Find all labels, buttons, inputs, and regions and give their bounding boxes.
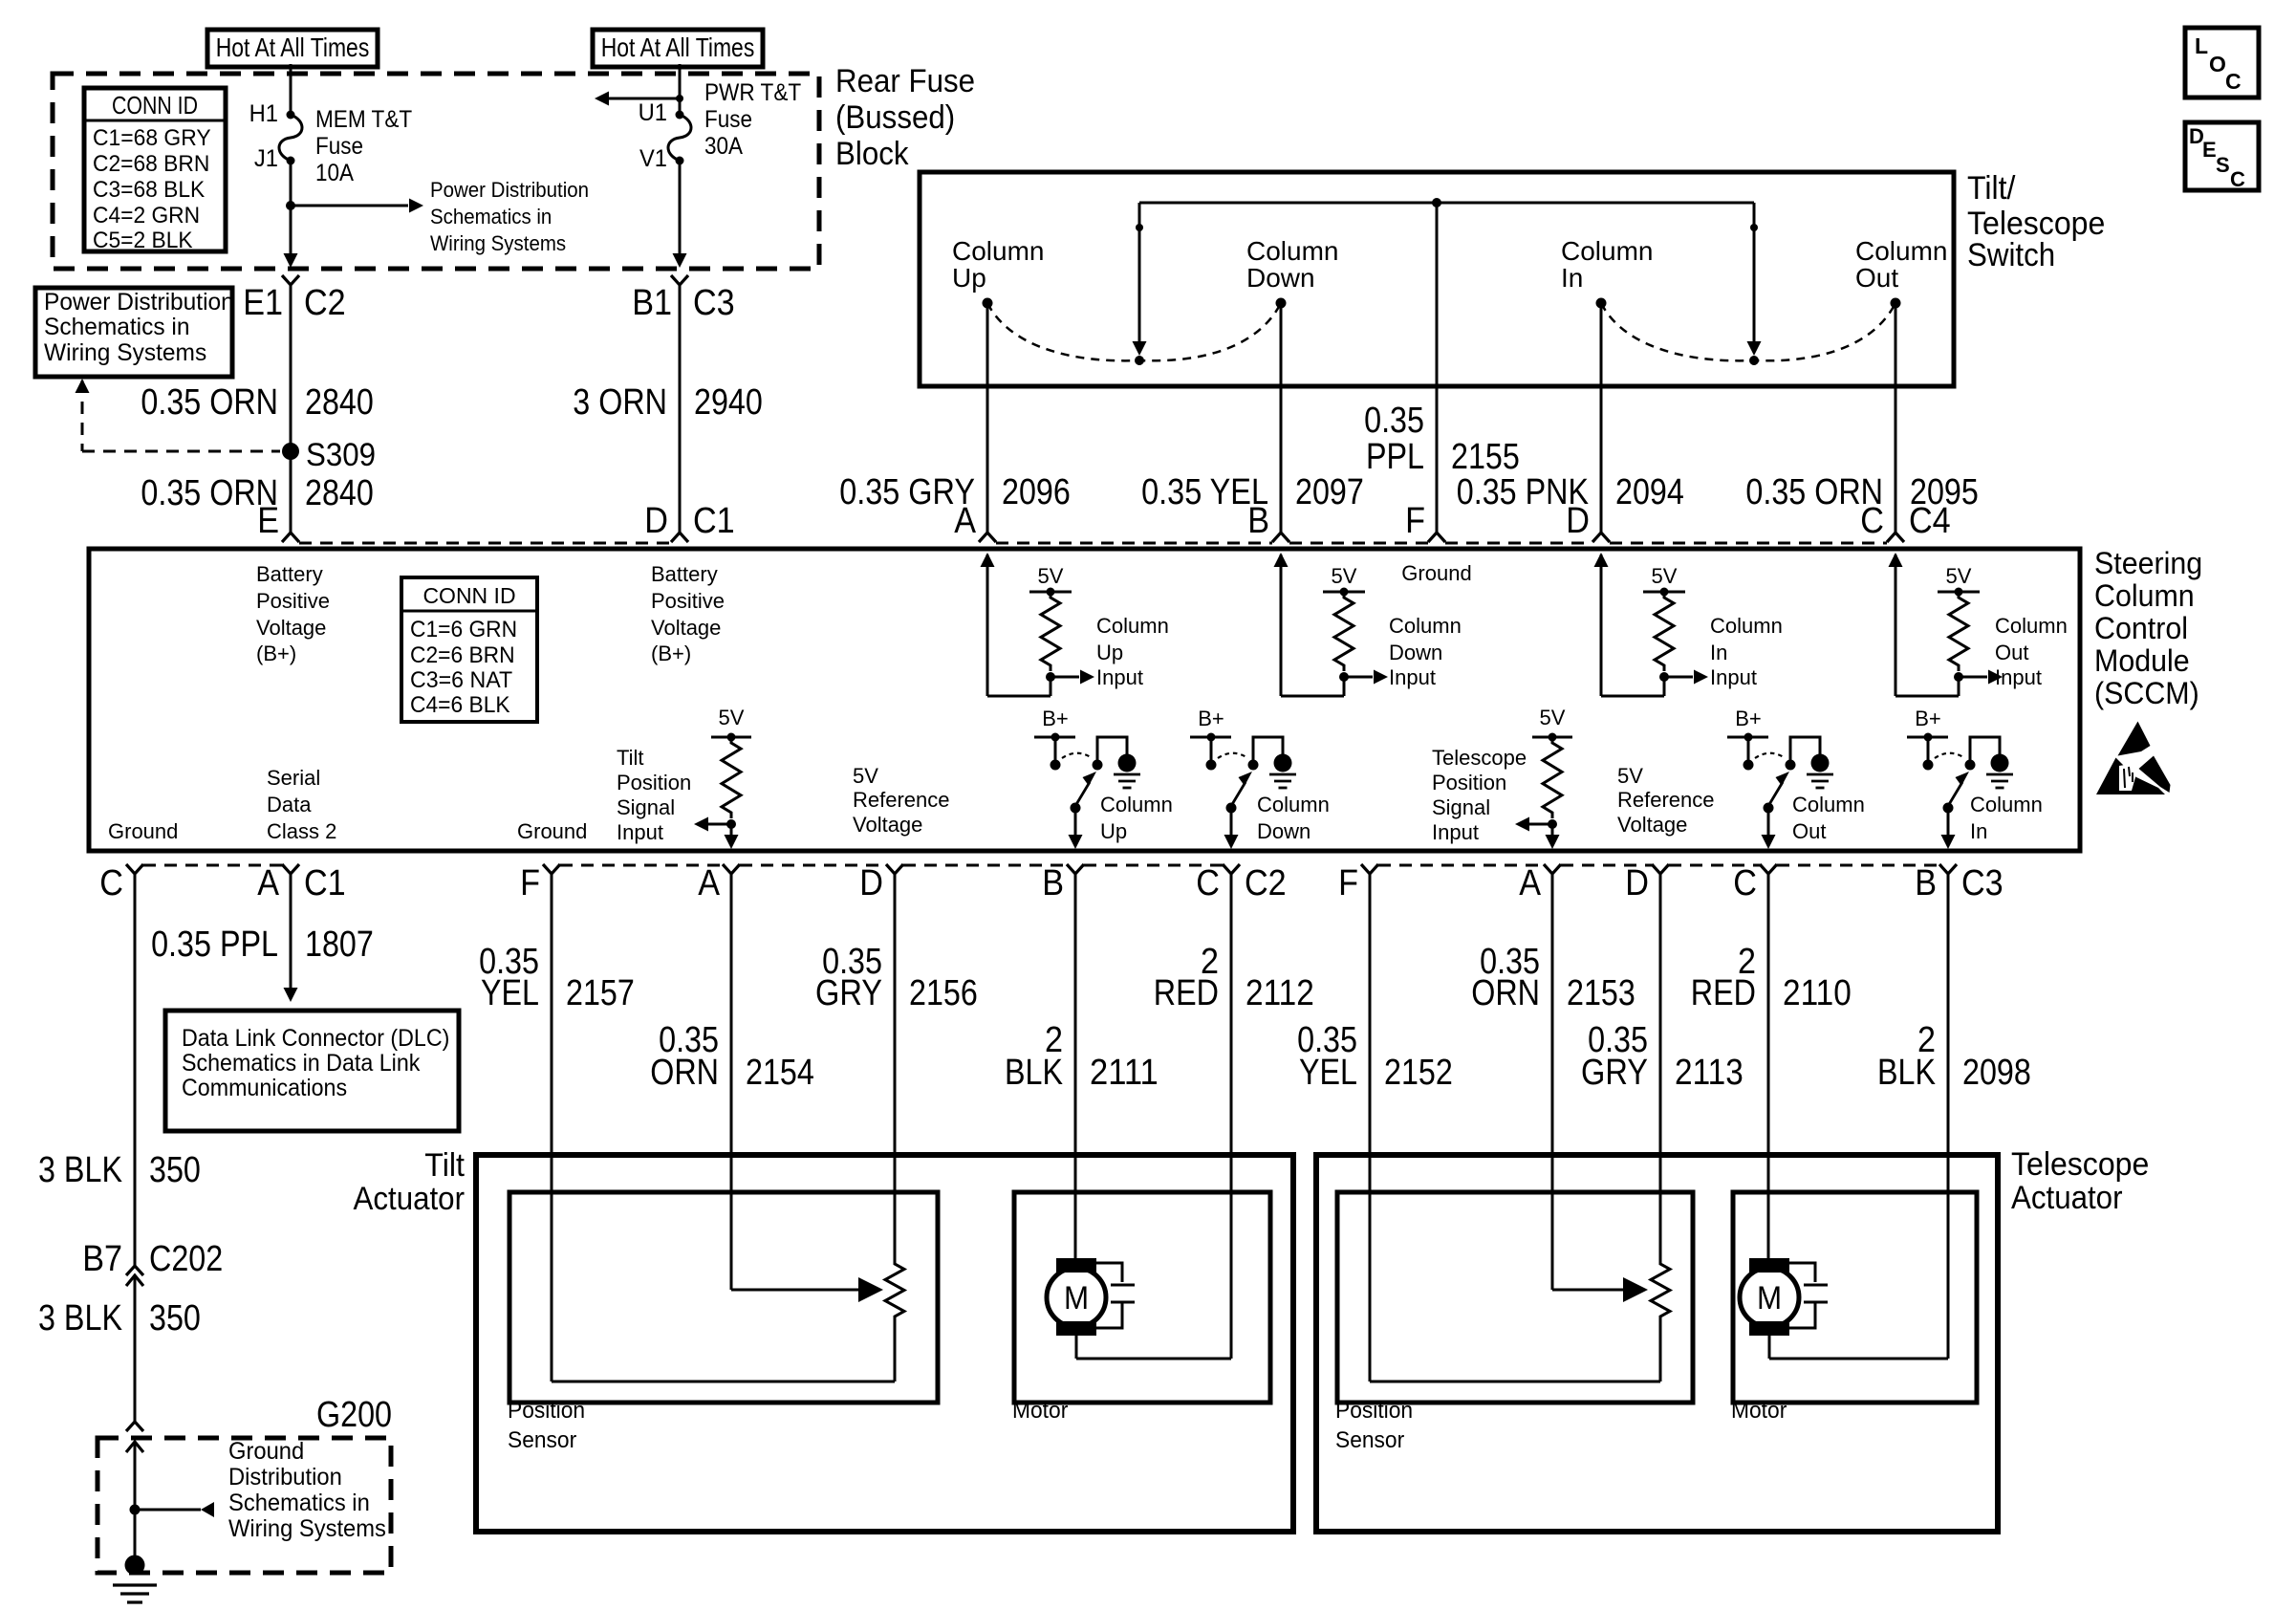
- svg-text:Positive: Positive: [651, 589, 725, 613]
- svg-text:C4: C4: [1909, 501, 1951, 541]
- label 2 BLK 2098: [1877, 1020, 2031, 1093]
- svg-text:A: A: [1519, 863, 1541, 903]
- svg-text:Block: Block: [835, 136, 909, 172]
- svg-text:D: D: [1566, 501, 1590, 541]
- svg-text:In: In: [1970, 819, 1987, 843]
- contact Column Out: [1855, 236, 1947, 309]
- svg-text:Out: Out: [1855, 263, 1898, 293]
- svg-text:3 BLK: 3 BLK: [38, 1298, 122, 1338]
- svg-text:Up: Up: [1096, 641, 1123, 664]
- rear fuse block dashed boundary: [53, 74, 819, 269]
- wire 350 ground upper segment (pin C): [134, 874, 137, 1266]
- column input sense wire (pin x=1675): [1594, 553, 1665, 696]
- svg-text:C3: C3: [693, 283, 735, 323]
- contact Column In: [1561, 236, 1653, 309]
- svg-text:Rear Fuse: Rear Fuse: [835, 63, 975, 99]
- svg-text:2156: 2156: [909, 973, 978, 1013]
- svg-text:5V: 5V: [1038, 564, 1064, 588]
- telescope sensor bottom wire: [1370, 1381, 1660, 1383]
- tilt sensor resistor: [885, 1260, 904, 1382]
- svg-text:Battery: Battery: [256, 562, 323, 586]
- svg-text:C: C: [1196, 863, 1220, 903]
- fuse MEM T&T 10A: [279, 106, 412, 186]
- reference box Power Distribution Schematics in Wiring Systems: [35, 288, 234, 377]
- tilt/telescope switch box: [920, 172, 1954, 386]
- svg-text:RED: RED: [1691, 973, 1756, 1013]
- svg-text:YEL: YEL: [1299, 1053, 1357, 1093]
- svg-text:B: B: [1247, 501, 1269, 541]
- label Tilt Actuator: [354, 1147, 466, 1217]
- svg-text:2840: 2840: [305, 382, 374, 423]
- svg-text:Input: Input: [1096, 665, 1143, 689]
- dashed connector line C1 (top): [299, 542, 671, 545]
- label Column Out Input: [1995, 614, 2068, 689]
- label Battery Positive Voltage (B+) (right): [651, 562, 725, 665]
- label Power Distribution Schematics in Wiring Systems (arrow): [430, 178, 589, 255]
- label Ground (pin C): [108, 819, 178, 843]
- svg-text:Wiring Systems: Wiring Systems: [44, 339, 206, 366]
- svg-text:Out: Out: [1792, 819, 1826, 843]
- svg-text:Telescope: Telescope: [2011, 1146, 2149, 1183]
- svg-text:A: A: [698, 863, 720, 903]
- svg-text:2152: 2152: [1384, 1053, 1453, 1093]
- svg-text:Switch: Switch: [1967, 237, 2055, 273]
- connector B1/C3: [632, 275, 735, 323]
- svg-text:0.35 ORN: 0.35 ORN: [141, 382, 278, 423]
- node bus center: [1432, 198, 1441, 207]
- svg-text:Input: Input: [1995, 665, 2042, 689]
- svg-text:5V: 5V: [719, 706, 745, 729]
- wire V1 down to fuse block edge: [673, 161, 687, 268]
- svg-text:2110: 2110: [1783, 973, 1852, 1013]
- label 2 BLK 2111: [1005, 1020, 1159, 1093]
- svg-text:M: M: [1757, 1280, 1782, 1316]
- svg-text:5V: 5V: [853, 764, 878, 788]
- svg-text:Data: Data: [267, 793, 312, 816]
- connector E1/C2: [243, 275, 346, 323]
- wire 2097: [1280, 303, 1283, 533]
- svg-text:Input: Input: [1710, 665, 1757, 689]
- svg-text:M: M: [1064, 1280, 1089, 1316]
- wire fuse output down: [290, 161, 292, 206]
- switch common bus wire: [1139, 202, 1754, 205]
- svg-text:2096: 2096: [1002, 472, 1071, 512]
- svg-text:V1: V1: [639, 145, 667, 172]
- wire 2840 upper segment: [290, 285, 292, 446]
- svg-text:(B+): (B+): [256, 642, 296, 665]
- svg-text:Schematics in: Schematics in: [228, 1490, 370, 1516]
- svg-text:Control: Control: [2094, 611, 2188, 645]
- svg-text:Down: Down: [1257, 819, 1310, 843]
- svg-text:Ground: Ground: [517, 819, 587, 843]
- label Battery Positive Voltage (B+) (left): [256, 562, 330, 665]
- label 0.35 ORN 2840 (upper): [141, 382, 373, 423]
- switch sense Column Down (pin C of C2): [1190, 707, 1296, 849]
- label 0.35 YEL 2097: [1141, 472, 1364, 512]
- svg-text:Column: Column: [1389, 614, 1462, 638]
- dashed travel arc telescope: [1601, 303, 1895, 360]
- wire 2112 (tilt motor -): [1230, 874, 1233, 1359]
- wire 1807 (pin A serial data): [284, 874, 298, 1002]
- svg-text:MEM T&T: MEM T&T: [315, 106, 412, 133]
- svg-text:Wiring Systems: Wiring Systems: [430, 231, 566, 255]
- wire 350 ground lower segment: [134, 1275, 137, 1422]
- ESD warning symbol: [2096, 722, 2171, 795]
- svg-text:Actuator: Actuator: [2011, 1180, 2123, 1216]
- svg-text:Serial: Serial: [267, 766, 320, 790]
- svg-text:Data Link Connector (DLC): Data Link Connector (DLC): [182, 1025, 449, 1052]
- svg-text:C1=68 GRY: C1=68 GRY: [93, 125, 211, 151]
- contact Column Down: [1246, 236, 1338, 309]
- dashed travel arc tilt: [987, 303, 1281, 360]
- svg-text:Tilt: Tilt: [617, 746, 644, 770]
- SCCM module box: [89, 549, 2080, 851]
- svg-text:G200: G200: [316, 1395, 392, 1435]
- reference box Data Link Connector (DLC): [165, 1011, 459, 1131]
- svg-text:(B+): (B+): [651, 642, 691, 665]
- svg-text:Motor: Motor: [1012, 1398, 1068, 1424]
- inline connector B7/C202: [82, 1239, 223, 1286]
- svg-text:A: A: [954, 501, 976, 541]
- label 0.35 PPL 2155: [1364, 401, 1520, 477]
- node U1: [639, 99, 684, 126]
- svg-text:Column: Column: [1096, 614, 1169, 638]
- label Telescope Actuator: [2011, 1146, 2149, 1216]
- svg-text:Tilt/: Tilt/: [1967, 170, 2016, 207]
- svg-text:Column: Column: [1792, 793, 1865, 816]
- svg-text:C1=6 GRN: C1=6 GRN: [410, 617, 517, 642]
- svg-text:2153: 2153: [1567, 973, 1635, 1013]
- svg-text:(SCCM): (SCCM): [2094, 676, 2199, 710]
- label Motor (telescope): [1731, 1398, 1787, 1424]
- svg-text:F: F: [1405, 501, 1425, 541]
- svg-text:3 ORN: 3 ORN: [573, 382, 667, 423]
- svg-text:C2=6 BRN: C2=6 BRN: [410, 642, 515, 668]
- svg-text:E: E: [2202, 138, 2217, 162]
- tilt motor box: [1014, 1192, 1270, 1403]
- connector id table CONN ID (fuse block): [84, 88, 226, 253]
- svg-text:YEL: YEL: [481, 973, 539, 1013]
- svg-text:2111: 2111: [1090, 1053, 1159, 1093]
- label 0.35 GRY 2156: [815, 942, 978, 1013]
- label Hot At All Times (left): [207, 30, 378, 67]
- wire 2156 (tilt sensor high): [894, 874, 897, 1260]
- svg-text:2155: 2155: [1451, 437, 1520, 477]
- svg-text:O: O: [2209, 52, 2226, 76]
- svg-text:C5=2 BLK: C5=2 BLK: [93, 228, 193, 253]
- svg-text:BLK: BLK: [1005, 1053, 1063, 1093]
- svg-text:CONN ID: CONN ID: [112, 91, 198, 120]
- label 0.35 PPL 1807: [151, 925, 374, 965]
- junction and reference arrow to ground distribution: [130, 1502, 215, 1517]
- svg-text:C4=6 BLK: C4=6 BLK: [410, 692, 510, 718]
- svg-text:C2: C2: [1245, 863, 1287, 903]
- svg-text:Input: Input: [617, 820, 663, 844]
- svg-text:Column: Column: [1100, 793, 1173, 816]
- label Telescope Position Signal Input: [1432, 746, 1527, 844]
- svg-text:H1: H1: [249, 100, 278, 127]
- wire 2094: [1600, 303, 1603, 533]
- svg-text:ORN: ORN: [1471, 973, 1540, 1013]
- svg-text:Input: Input: [1432, 820, 1479, 844]
- inline connector at G200 box edge: [126, 1422, 143, 1452]
- svg-text:Steering: Steering: [2094, 546, 2202, 580]
- svg-text:Fuse: Fuse: [704, 106, 752, 133]
- svg-text:5V: 5V: [1332, 564, 1357, 588]
- svg-text:C: C: [1860, 501, 1884, 541]
- svg-text:Schematics in: Schematics in: [44, 314, 190, 340]
- tilt actuator box: [476, 1155, 1293, 1532]
- svg-text:1807: 1807: [305, 925, 374, 965]
- svg-text:RED: RED: [1154, 973, 1219, 1013]
- splice S309: [282, 437, 376, 473]
- svg-text:5V: 5V: [1652, 564, 1678, 588]
- switch sense Column Up (pin B of C2): [1034, 707, 1140, 849]
- label Tilt Position Signal Input: [617, 746, 691, 844]
- pull-up resistor to 5V (x=2049): [1938, 564, 2003, 685]
- label 3 BLK 350 (upper): [38, 1150, 201, 1190]
- svg-text:Battery: Battery: [651, 562, 718, 586]
- label 0.35 ORN 2840 (lower): [141, 473, 373, 513]
- label 0.35 GRY 2096: [839, 472, 1071, 512]
- tilt motor M: [1047, 1258, 1135, 1336]
- wire 2095: [1895, 303, 1897, 533]
- switch wiper right (telescope): [1747, 203, 1762, 365]
- node H1: [249, 100, 295, 127]
- column input sense wire (pin x=1033): [981, 553, 1051, 696]
- svg-text:Down: Down: [1389, 641, 1442, 664]
- telescope sensor wiper arrow: [1552, 1277, 1648, 1302]
- svg-text:C: C: [2225, 69, 2242, 94]
- svg-text:Voltage: Voltage: [651, 616, 721, 640]
- svg-text:F: F: [520, 863, 540, 903]
- label 0.35 GRY 2113: [1581, 1020, 1744, 1093]
- wire 2113 (telescope sensor high): [1659, 874, 1662, 1260]
- svg-text:Power Distribution: Power Distribution: [44, 289, 234, 315]
- label 0.35 ORN 2095: [1745, 472, 1978, 512]
- svg-text:Positive: Positive: [256, 589, 330, 613]
- svg-text:GRY: GRY: [1581, 1053, 1648, 1093]
- svg-text:D: D: [1625, 863, 1649, 903]
- svg-text:2112: 2112: [1245, 973, 1314, 1013]
- svg-text:30A: 30A: [704, 133, 743, 160]
- svg-text:GRY: GRY: [815, 973, 882, 1013]
- svg-text:Schematics in Data Link: Schematics in Data Link: [182, 1050, 421, 1077]
- svg-text:5V: 5V: [1617, 764, 1643, 788]
- telescope actuator box: [1316, 1155, 1998, 1532]
- svg-text:2113: 2113: [1675, 1053, 1744, 1093]
- label Ground Distribution Schematics in Wiring Systems: [228, 1438, 386, 1542]
- svg-text:Hot At All Times: Hot At All Times: [216, 33, 370, 62]
- svg-text:Hot At All Times: Hot At All Times: [601, 33, 755, 62]
- svg-text:2157: 2157: [566, 973, 635, 1013]
- svg-text:Column: Column: [1246, 236, 1338, 266]
- ground G200 symbol: [113, 1556, 157, 1603]
- svg-text:B7: B7: [82, 1239, 122, 1279]
- svg-text:J1: J1: [254, 145, 278, 172]
- tilt position signal pull-up resistor: [694, 706, 751, 849]
- svg-text:S309: S309: [306, 437, 376, 473]
- svg-text:BLK: BLK: [1877, 1053, 1936, 1093]
- svg-text:L: L: [2195, 33, 2208, 58]
- svg-text:Column: Column: [1257, 793, 1330, 816]
- svg-text:C2: C2: [304, 283, 346, 323]
- svg-text:C3=68 BLK: C3=68 BLK: [93, 177, 205, 203]
- svg-text:C3=6 NAT: C3=6 NAT: [410, 667, 512, 693]
- label 5V Reference Voltage (right): [1617, 764, 1715, 837]
- label Column Down Input: [1389, 614, 1462, 689]
- svg-text:Reference: Reference: [853, 788, 950, 812]
- svg-text:Column: Column: [2094, 578, 2195, 613]
- svg-text:Class 2: Class 2: [267, 819, 336, 843]
- svg-text:2154: 2154: [746, 1053, 814, 1093]
- dashed reference wire to S309: [76, 379, 281, 451]
- svg-text:5V: 5V: [1946, 564, 1972, 588]
- label Column Up Input: [1096, 614, 1169, 689]
- svg-text:C4=2 GRN: C4=2 GRN: [93, 203, 200, 228]
- svg-text:0.35: 0.35: [1364, 401, 1424, 441]
- svg-text:Fuse: Fuse: [315, 133, 363, 160]
- svg-text:Actuator: Actuator: [354, 1181, 466, 1217]
- svg-text:C202: C202: [149, 1239, 223, 1279]
- svg-text:C: C: [2230, 167, 2245, 191]
- label Position Sensor (telescope): [1335, 1398, 1413, 1453]
- svg-text:Wiring Systems: Wiring Systems: [228, 1515, 386, 1542]
- svg-text:350: 350: [149, 1298, 201, 1338]
- node J1: [254, 145, 295, 172]
- wire 2098 (telescope motor -): [1947, 874, 1950, 1359]
- svg-text:Down: Down: [1246, 263, 1315, 293]
- label 5V Reference Voltage (left): [853, 764, 950, 837]
- svg-text:Up: Up: [952, 263, 986, 293]
- svg-text:In: In: [1710, 641, 1727, 664]
- svg-text:3 BLK: 3 BLK: [38, 1150, 122, 1190]
- wire 2153 (telescope wiper): [1551, 874, 1554, 1290]
- wire common down (PPL 2155) inside switch: [1436, 203, 1439, 533]
- svg-text:Sensor: Sensor: [1335, 1427, 1404, 1453]
- svg-text:Out: Out: [1995, 641, 2028, 664]
- svg-text:Tilt: Tilt: [424, 1147, 465, 1184]
- tilt sensor wiper arrow: [731, 1277, 883, 1302]
- junction arrow to power distribution: [286, 199, 423, 213]
- svg-text:10A: 10A: [315, 160, 354, 186]
- wire down to fuse block edge: [284, 206, 298, 268]
- label 0.35 ORN 2153: [1471, 942, 1635, 1013]
- label Ground (pin F bottom left): [517, 819, 587, 843]
- label Column Up: [1100, 793, 1173, 843]
- tilt motor bottom wire to 2112: [1076, 1336, 1231, 1359]
- label Motor (tilt): [1012, 1398, 1068, 1424]
- label 3 ORN 2940: [573, 382, 763, 423]
- column input sense wire (pin x=1983): [1889, 553, 1960, 696]
- svg-text:PPL: PPL: [1366, 437, 1424, 477]
- svg-text:Schematics in: Schematics in: [430, 205, 552, 228]
- svg-text:E1: E1: [243, 283, 283, 323]
- label 2 RED 2112: [1154, 942, 1314, 1013]
- svg-text:2098: 2098: [1962, 1053, 2031, 1093]
- pull-up resistor to 5V (x=1406): [1323, 564, 1388, 685]
- svg-text:Position: Position: [1432, 771, 1506, 794]
- svg-text:S: S: [2216, 153, 2230, 177]
- label Hot At All Times (right): [593, 30, 763, 67]
- svg-text:0.35 PPL: 0.35 PPL: [151, 925, 278, 965]
- svg-text:A: A: [257, 863, 279, 903]
- dashed connector lines (bottom row): [143, 864, 1939, 867]
- svg-text:Signal: Signal: [1432, 795, 1490, 819]
- svg-text:Motor: Motor: [1731, 1398, 1787, 1424]
- switch sense Column Out (pin C of C3): [1727, 707, 1833, 849]
- svg-text:D: D: [859, 863, 883, 903]
- svg-text:E: E: [257, 501, 279, 541]
- wire 2840 lower segment: [290, 457, 292, 533]
- svg-text:2840: 2840: [305, 473, 374, 513]
- svg-text:B+: B+: [1198, 707, 1224, 730]
- svg-text:(Bussed): (Bussed): [835, 99, 955, 136]
- junction with feed arrow left: [595, 92, 683, 106]
- svg-text:Column: Column: [1561, 236, 1653, 266]
- svg-text:2094: 2094: [1615, 472, 1684, 512]
- svg-text:Position: Position: [1335, 1398, 1413, 1424]
- svg-text:C3: C3: [1961, 863, 2004, 903]
- label 0.35 YEL 2157: [479, 942, 635, 1013]
- svg-text:2097: 2097: [1295, 472, 1364, 512]
- svg-text:In: In: [1561, 263, 1583, 293]
- label 0.35 ORN 2154: [650, 1020, 814, 1093]
- label 0.35 YEL 2152: [1297, 1020, 1453, 1093]
- label Serial Data Class 2: [267, 766, 336, 843]
- svg-text:B: B: [1915, 863, 1937, 903]
- pull-up resistor to 5V (x=1741): [1643, 564, 1708, 685]
- svg-text:C: C: [99, 863, 123, 903]
- svg-text:Position: Position: [508, 1398, 585, 1424]
- svg-text:5V: 5V: [1540, 706, 1566, 729]
- svg-text:C2=68 BRN: C2=68 BRN: [93, 151, 209, 177]
- svg-text:B+: B+: [1915, 707, 1941, 730]
- svg-text:Voltage: Voltage: [1617, 813, 1687, 837]
- telescope position sensor box: [1337, 1192, 1693, 1403]
- svg-text:Ground: Ground: [228, 1438, 304, 1465]
- svg-text:U1: U1: [639, 99, 667, 126]
- svg-text:D: D: [644, 501, 668, 541]
- svg-text:Column: Column: [1970, 793, 2043, 816]
- wire inside G200 box: [134, 1442, 137, 1558]
- label 0.35 PNK 2094: [1457, 472, 1684, 512]
- wire 2096: [986, 303, 989, 533]
- wire 2940: [679, 285, 682, 533]
- label 2 RED 2110: [1691, 942, 1852, 1013]
- SCCM top connector pins E D/C1 A B F D C/C4: [257, 501, 1951, 542]
- DESC reference box: [2185, 122, 2259, 191]
- svg-text:Ground: Ground: [108, 819, 178, 843]
- svg-text:Telescope: Telescope: [1432, 746, 1527, 770]
- label Column Down: [1257, 793, 1330, 843]
- label Ground (top pin F): [1401, 561, 1471, 585]
- svg-text:Signal: Signal: [617, 795, 675, 819]
- svg-text:C: C: [1733, 863, 1757, 903]
- LOC reference box: [2185, 28, 2259, 98]
- svg-text:Position: Position: [617, 771, 691, 794]
- telescope sensor resistor: [1651, 1260, 1670, 1382]
- label Column Out: [1792, 793, 1865, 843]
- label G200: [316, 1395, 392, 1435]
- fuse PWR T&T 30A: [668, 79, 801, 161]
- ground distribution dashed box G200: [97, 1438, 391, 1573]
- svg-text:350: 350: [149, 1150, 201, 1190]
- column input sense wire (pin x=1340): [1274, 553, 1345, 696]
- switch wiper left (tilt): [1133, 203, 1147, 365]
- pull-up resistor to 5V (x=1099): [1029, 564, 1094, 685]
- label Steering Column Control Module (SCCM): [2094, 546, 2202, 710]
